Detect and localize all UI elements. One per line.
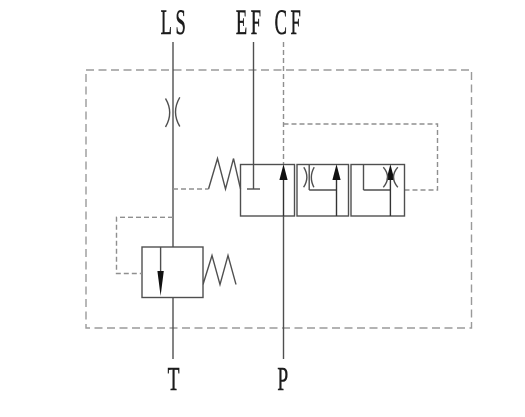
box1 P-to-CF flow arrow: [279, 164, 287, 216]
wire P vertical: [283, 216, 285, 359]
wire EF vertical: [253, 42, 255, 165]
box1 blocked EF port: [247, 165, 260, 190]
pilot line LS to valve spring: [173, 188, 209, 190]
box3 variable orifice arcs: [383, 167, 398, 187]
pilot line CF dashed vertical: [283, 42, 285, 165]
pilot line CF feedback to valve right end: [284, 124, 438, 190]
orifice O1 on LS line: [166, 97, 180, 127]
enclosure dashed border: [86, 70, 472, 328]
relief valve RV body: [142, 247, 203, 298]
box3 flow path: [364, 164, 395, 216]
svg-text:T: T: [168, 361, 180, 398]
relief valve spring (right): [203, 256, 236, 285]
wire T vertical: [172, 298, 174, 360]
svg-text:EF: EF: [236, 4, 265, 43]
valve spring (left end): [209, 159, 241, 190]
priority valve V1 box 3: [351, 165, 405, 217]
relief valve flow arrow: [157, 247, 163, 296]
relief valve pilot dashed: [117, 217, 174, 273]
box2 orifice: [304, 167, 315, 187]
priority valve V1 box 2: [297, 165, 349, 217]
box2 flow path with arrow: [309, 164, 340, 216]
wire LS vertical: [172, 42, 174, 247]
svg-text:P: P: [277, 361, 288, 398]
priority valve V1 box 1: [241, 165, 295, 217]
svg-text:LS: LS: [161, 4, 190, 43]
svg-text:CF: CF: [275, 4, 305, 43]
